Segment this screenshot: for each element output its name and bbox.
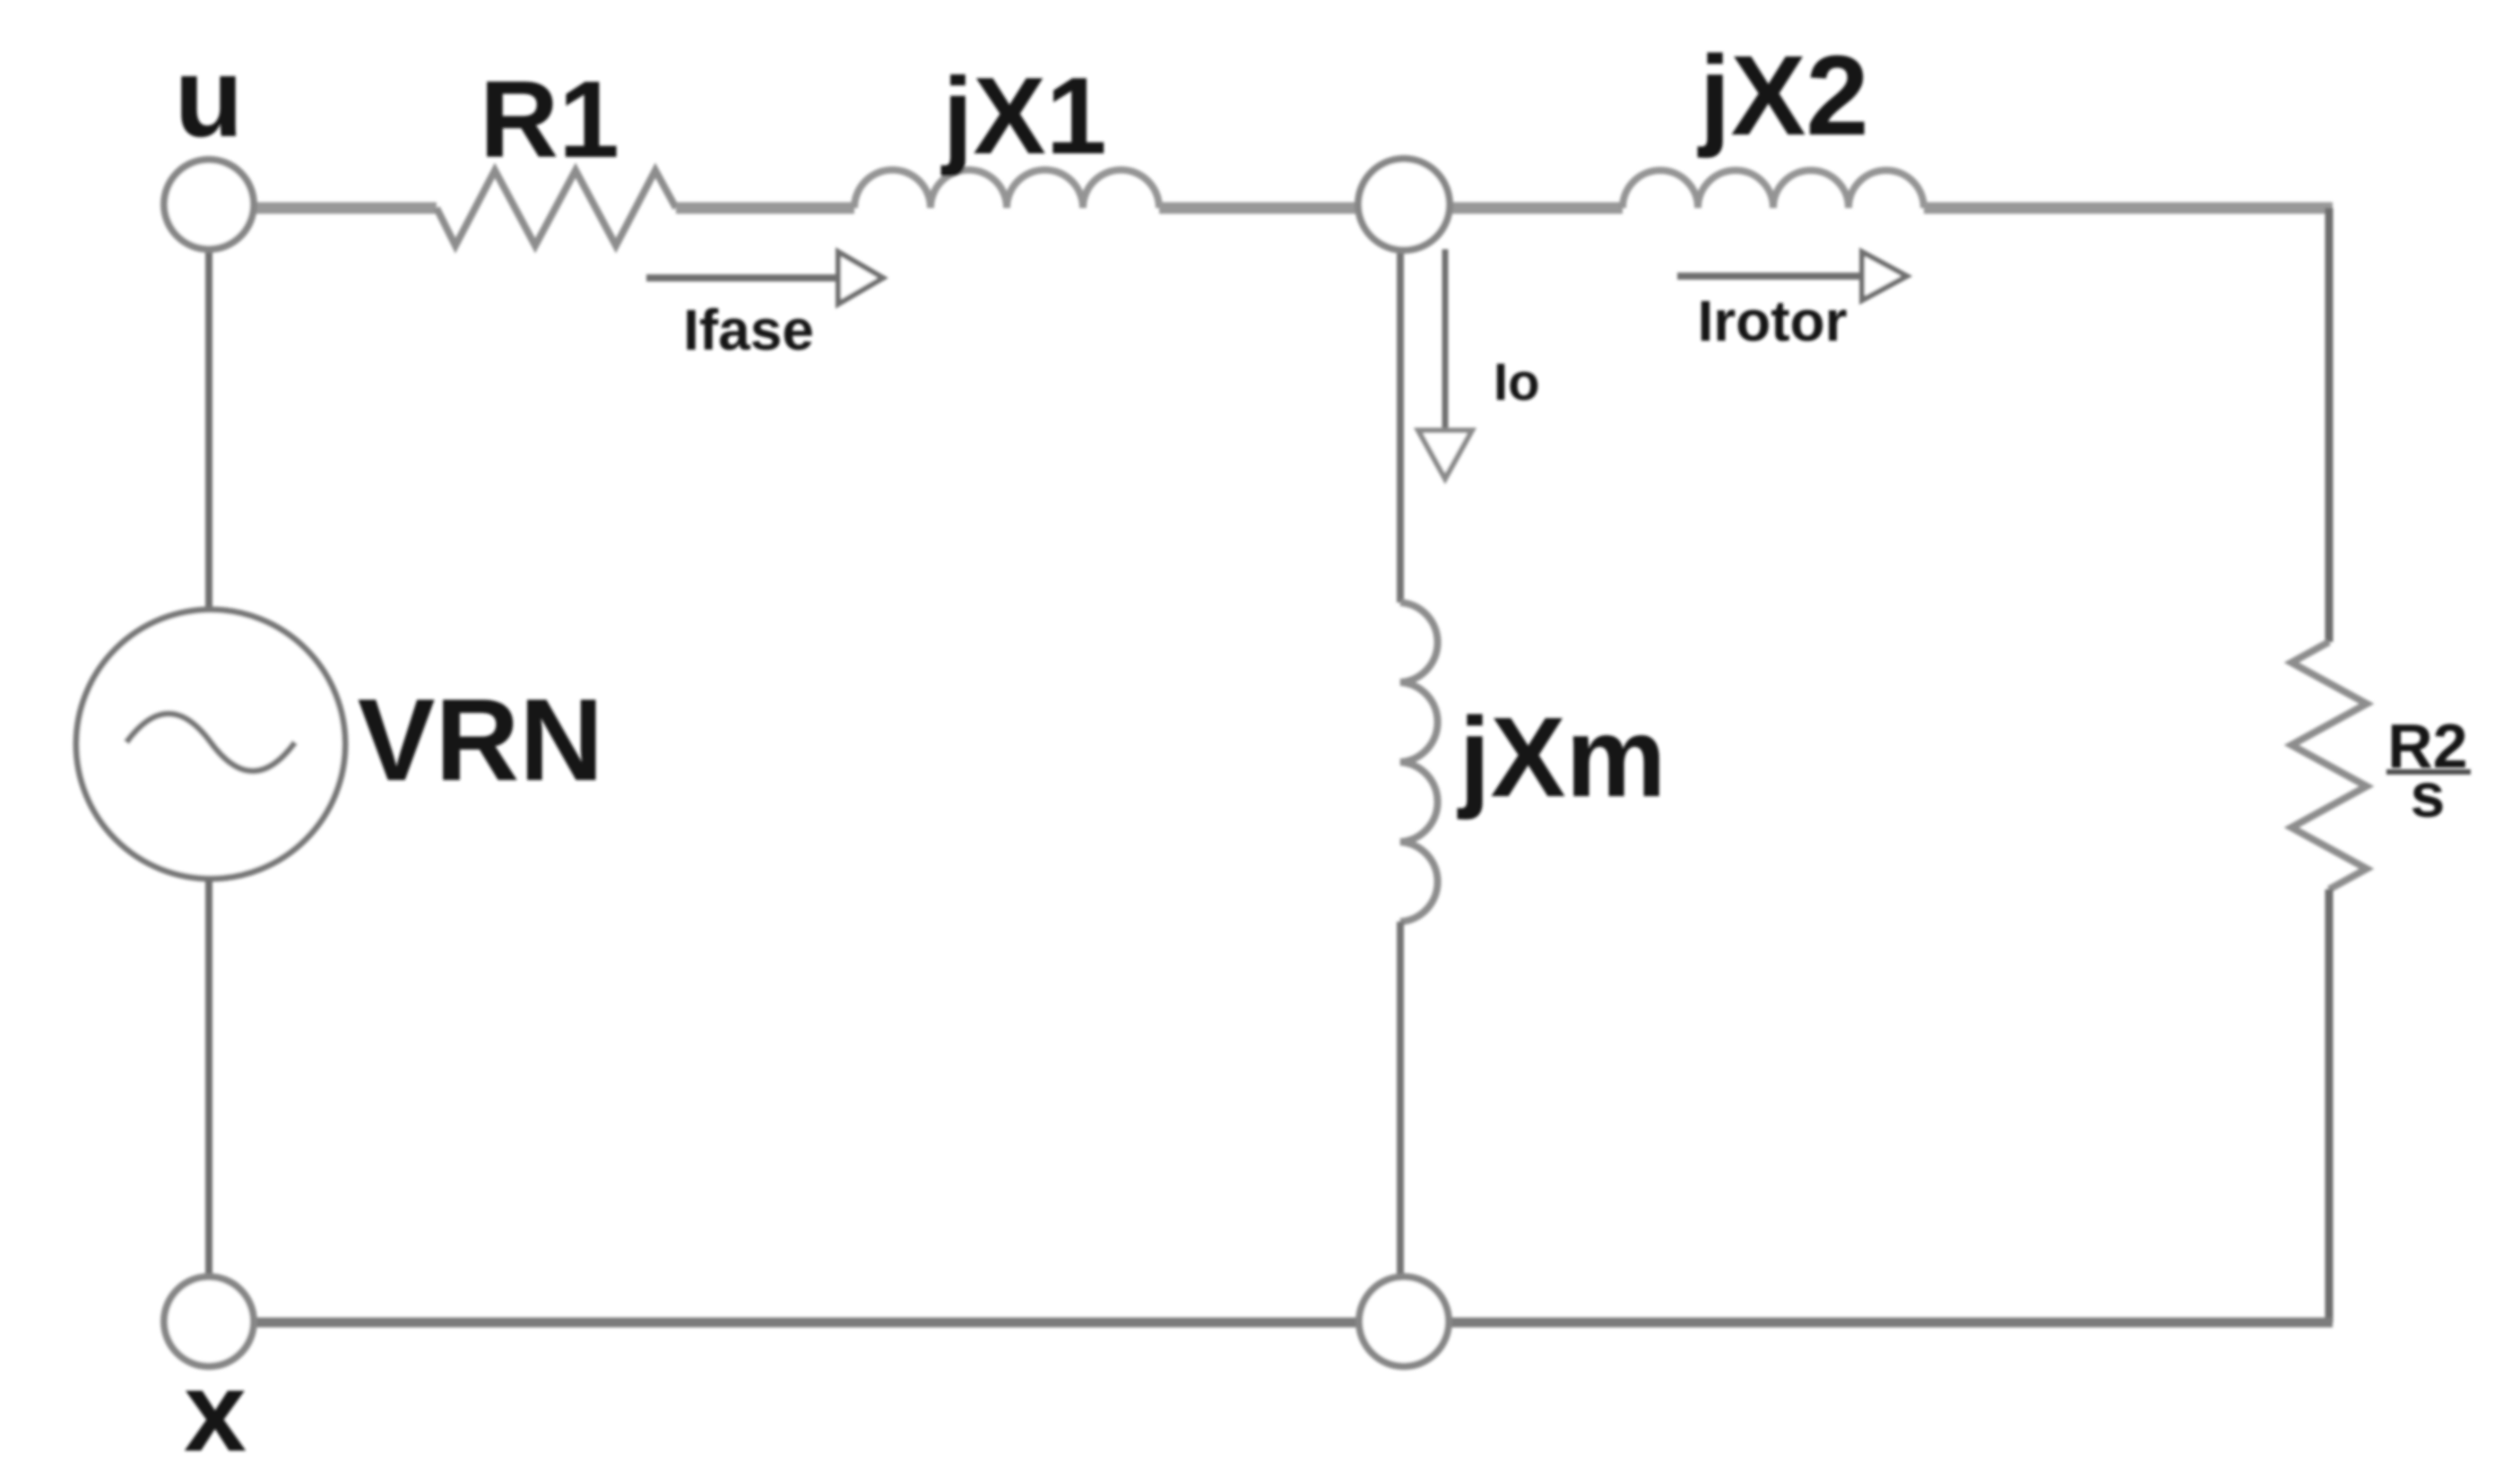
svg-text:Ifase: Ifase <box>683 298 814 362</box>
wire right vertical upper <box>2325 208 2334 642</box>
svg-text:u: u <box>175 34 244 160</box>
svg-text:Io: Io <box>1494 353 1540 412</box>
wire node to jX2 <box>1445 203 1623 214</box>
inductor jXm <box>1400 602 1438 922</box>
arrow Irotor <box>1677 252 1907 300</box>
source VRN <box>76 610 345 879</box>
node top middle <box>1358 159 1450 250</box>
wire left vertical upper (u to VRN) <box>205 249 212 611</box>
terminal x <box>164 1277 254 1366</box>
svg-text:jX1: jX1 <box>940 55 1106 177</box>
svg-text:VRN: VRN <box>358 674 603 805</box>
wire jX2 to top-right corner <box>1924 203 2333 214</box>
wire middle vertical upper (node to jXm) <box>1397 249 1404 602</box>
wire right vertical lower <box>2325 889 2334 1322</box>
svg-text:x: x <box>184 1348 247 1475</box>
node bottom middle <box>1359 1277 1449 1366</box>
label R2/s fraction <box>2386 711 2471 830</box>
svg-text:R1: R1 <box>480 58 619 180</box>
resistor R1 <box>437 170 676 246</box>
arrow Ifase <box>646 252 883 304</box>
svg-text:s: s <box>2411 760 2446 830</box>
svg-text:Irotor: Irotor <box>1697 289 1847 353</box>
wire jX1 to node <box>1159 203 1363 214</box>
arrow Io <box>1418 249 1472 479</box>
wire bottom rail <box>254 1318 2333 1328</box>
svg-text:jX2: jX2 <box>1697 32 1868 159</box>
inductor jX1 <box>854 170 1159 209</box>
resistor R2/s <box>2291 642 2367 889</box>
svg-text:jXm: jXm <box>1457 694 1666 820</box>
wire top rail segment u to R1 <box>255 203 437 214</box>
wire R1 to jX1 <box>676 203 854 214</box>
inductor jX2 <box>1623 170 1924 208</box>
terminal u <box>164 160 254 249</box>
wire middle vertical lower (jXm to bottom node) <box>1397 922 1404 1277</box>
wire left vertical lower (VRN to x) <box>205 880 212 1277</box>
